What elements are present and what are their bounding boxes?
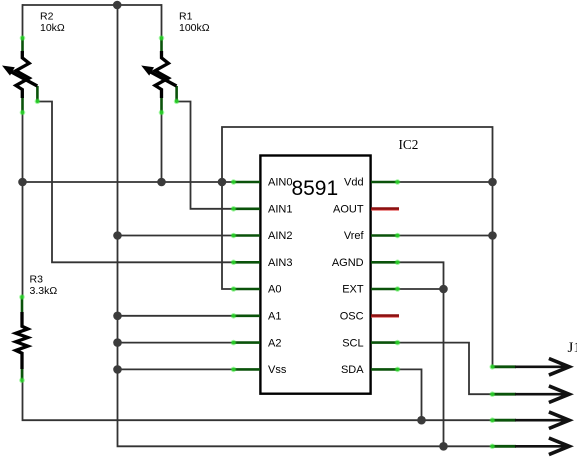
svg-text:Vref: Vref [344, 230, 365, 242]
wire A1 row [118, 315, 234, 317]
junction AGND/bottom row [439, 442, 448, 451]
wire GND vertical from top rail to bottom row to arrow4 [118, 4, 492, 446]
junction AIN0/R1 [157, 178, 166, 187]
svg-text:8591: 8591 [291, 177, 338, 200]
pin Vss [231, 364, 287, 376]
svg-text:R3: R3 [30, 274, 44, 286]
svg-text:AIN2: AIN2 [268, 230, 292, 242]
junction A2 [113, 338, 122, 347]
wire AIN2 row [118, 235, 234, 237]
wire R1 wiper to AIN1 [177, 102, 234, 209]
pin EXT [342, 284, 400, 296]
pin A2 [231, 337, 282, 349]
junction Vref right vertical [488, 231, 497, 240]
svg-text:AGND: AGND [332, 257, 364, 269]
pin A0 [231, 284, 282, 296]
junction AIN2 [113, 231, 122, 240]
svg-text:EXT: EXT [342, 284, 364, 296]
junction SDA/arrow3 row [417, 416, 426, 425]
wire top rail R2-R1 [23, 4, 162, 6]
pin Vref [344, 230, 400, 242]
junction EXT/AGND vertical [439, 285, 448, 294]
wire Vref to right vertical [398, 235, 493, 237]
junction top rail [113, 1, 122, 10]
svg-text:AOUT: AOUT [333, 204, 364, 216]
wire A0 net up over IC down to arrow1 [222, 127, 493, 367]
svg-text:SCL: SCL [342, 337, 363, 349]
connector J1 pin 4 arrow [490, 438, 570, 455]
svg-text:10kΩ: 10kΩ [40, 22, 65, 34]
pin AIN0 [231, 177, 293, 189]
svg-text:AIN0: AIN0 [268, 177, 292, 189]
svg-text:OSC: OSC [340, 311, 364, 323]
junction Vss [113, 365, 122, 374]
svg-text:Vdd: Vdd [344, 177, 364, 189]
svg-text:IC2: IC2 [399, 137, 419, 152]
resistor R3 [16, 294, 28, 383]
pin SCL [342, 337, 400, 349]
op-amp/IC body IC2 (PCF8591 box) [260, 156, 370, 394]
connector J1 pin 1 arrow [490, 359, 570, 376]
wire AGND down to bottom row [398, 262, 444, 446]
wire SCL to arrow2 [398, 343, 492, 395]
svg-text:SDA: SDA [341, 364, 364, 376]
wire SDA down to arrow3 row [398, 369, 422, 420]
pin OSC (unconnected, red) [340, 311, 399, 323]
pin A1 [231, 311, 282, 323]
svg-text:AIN3: AIN3 [268, 257, 292, 269]
connector J1 pin 2 arrow [490, 386, 570, 403]
wire R2 wiper to AIN3 [38, 102, 234, 263]
svg-text:R2: R2 [40, 10, 54, 22]
svg-text:Vss: Vss [268, 364, 287, 376]
connector J1 pin 3 arrow [490, 412, 570, 429]
svg-text:J1: J1 [568, 340, 577, 356]
wire A2 row [118, 342, 234, 344]
potentiometer R1 [141, 35, 179, 115]
junction A1 [113, 312, 122, 321]
wire Vss row [118, 368, 234, 370]
pin AIN3 [231, 257, 293, 269]
wire Vdd to right vertical [398, 181, 493, 183]
svg-text:A0: A0 [268, 284, 281, 296]
potentiometer R2 [2, 35, 40, 115]
wire EXT to AGND vertical [398, 288, 444, 290]
wire R3 bottom to arrow3 row [23, 369, 492, 421]
pin AIN2 [231, 230, 293, 242]
junction AIN0/R2-R3 [18, 178, 27, 187]
pin Vdd [344, 177, 400, 189]
wire R2 top drop [22, 4, 24, 38]
svg-text:AIN1: AIN1 [268, 204, 292, 216]
pin AGND [332, 257, 400, 269]
svg-text:A2: A2 [268, 337, 281, 349]
wire R2 bottom leg to AIN0 row to R3 top [22, 112, 24, 296]
svg-text:A1: A1 [268, 311, 281, 323]
svg-text:3.3kΩ: 3.3kΩ [30, 285, 58, 297]
pin SDA [341, 364, 400, 376]
pin AIN1 [231, 204, 293, 216]
wire R1 bottom leg to AIN0 row [161, 112, 163, 182]
wire AIN0 row [23, 181, 234, 183]
svg-text:100kΩ: 100kΩ [179, 22, 210, 34]
pin AOUT (unconnected, red) [333, 204, 399, 216]
junction Vdd right vertical [488, 178, 497, 187]
wire R1 top drop [161, 4, 163, 38]
junction AIN0/A0 riser [218, 178, 227, 187]
svg-text:R1: R1 [179, 10, 193, 22]
